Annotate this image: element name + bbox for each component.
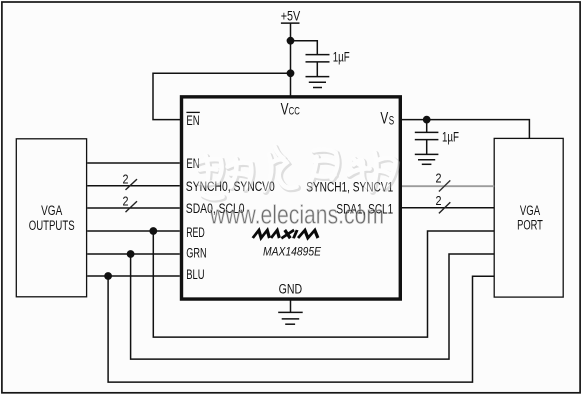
wire SDA0/SCL0 bus	[87, 207, 180, 209]
svg-text:2: 2	[123, 171, 129, 186]
wire EN	[87, 162, 180, 164]
svg-text:PORT: PORT	[517, 217, 543, 232]
junction dot GRN	[127, 250, 135, 258]
ground under C2	[415, 154, 439, 164]
svg-text:S: S	[389, 115, 395, 127]
pin label VCC	[281, 100, 300, 118]
svg-text:MAX14895E: MAX14895E	[263, 244, 322, 258]
ground symbol GND	[278, 312, 303, 324]
MAXIM logo	[253, 230, 320, 238]
svg-text:V: V	[281, 100, 289, 118]
VGA OUTPUTS box	[16, 139, 86, 297]
watermark: elecfans chinese calligraphy	[197, 147, 397, 200]
svg-text:CC: CC	[289, 105, 300, 117]
wire VS to VGA PORT	[400, 120, 529, 139]
svg-text:1µF: 1µF	[442, 129, 459, 144]
svg-text:VGA: VGA	[520, 203, 540, 218]
svg-text:VGA: VGA	[41, 203, 62, 218]
svg-text:www.elecians.com: www.elecians.com	[209, 202, 384, 230]
wire BLU	[87, 275, 180, 277]
svg-text:RED: RED	[186, 225, 205, 241]
junction dot BLU	[104, 272, 112, 280]
wire from +5V rail to EN-bar pin	[153, 73, 291, 119]
svg-text:2: 2	[436, 193, 442, 208]
wire BLU route to VGA PORT	[108, 276, 494, 382]
bus slash left 1	[126, 179, 138, 190]
+5V bar	[281, 22, 300, 24]
bus slash left 2	[126, 201, 138, 212]
svg-text:1µF: 1µF	[333, 50, 350, 65]
junction dot on +5V rail (C1 tap)	[287, 37, 295, 45]
wire GRN	[87, 253, 180, 255]
VGA PORT box	[494, 138, 563, 297]
svg-text:2: 2	[436, 170, 442, 185]
junction dot VS cap tap	[423, 116, 431, 124]
wire RED route to VGA PORT	[153, 231, 494, 337]
wire branch to C1	[291, 41, 318, 54]
svg-text:OUTPUTS: OUTPUTS	[29, 218, 75, 233]
junction dot (EN-bar tap)	[287, 69, 295, 77]
ground stub under IC	[290, 299, 292, 312]
wire RED	[87, 230, 180, 232]
pin label VS	[380, 109, 394, 127]
svg-text:SYNCH1, SYNCV1: SYNCH1, SYNCV1	[306, 180, 393, 196]
svg-text:GND: GND	[279, 281, 303, 296]
IC U1 MAX14895E body	[182, 97, 401, 299]
wire SYNCH1/SYNCV1 bus (grayed by watermark)	[402, 185, 494, 187]
wire SDA1/SCL1 bus	[400, 207, 494, 209]
capacitor C1 1uF	[306, 55, 330, 77]
wire SYNCH0/SYNCV0 bus	[87, 185, 180, 187]
ground under C1	[306, 77, 330, 88]
svg-text:2: 2	[123, 194, 129, 209]
svg-text:EN: EN	[186, 113, 199, 129]
svg-text:V: V	[380, 109, 388, 127]
capacitor C2 1uF	[415, 120, 439, 155]
bus slash right 1	[439, 180, 450, 191]
junction dot RED	[149, 227, 157, 235]
svg-text:+5V: +5V	[281, 9, 301, 24]
wire GRN route to VGA PORT	[131, 254, 495, 359]
svg-text:BLU: BLU	[186, 267, 204, 283]
svg-text:GRN: GRN	[186, 245, 206, 261]
bus slash right 2	[439, 202, 450, 213]
wire +5V rail vertical	[290, 23, 292, 96]
